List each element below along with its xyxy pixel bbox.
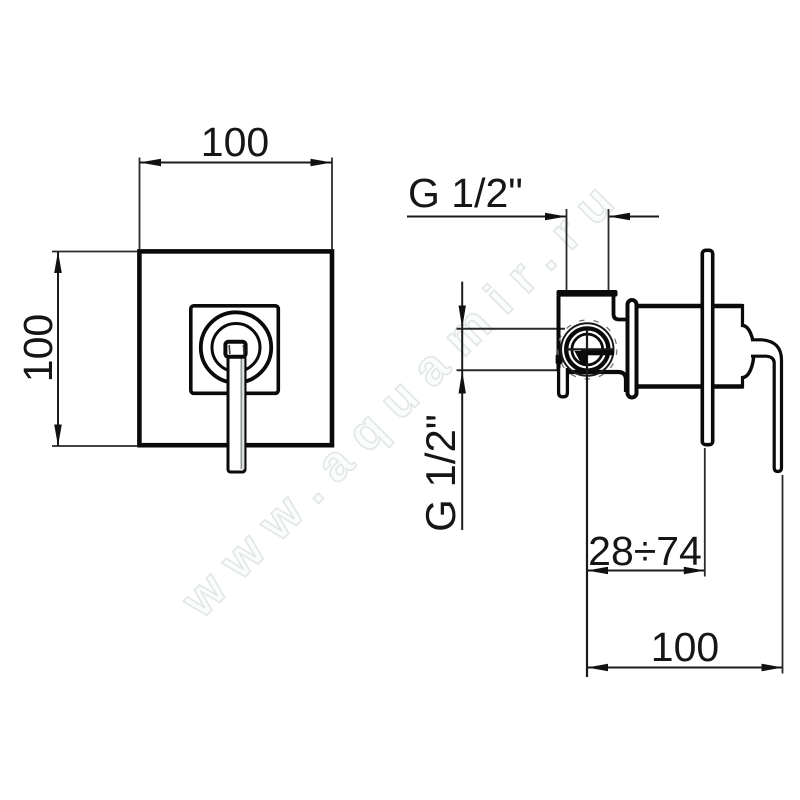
handle dome (742, 326, 754, 378)
trim ring outer (201, 312, 271, 382)
crosshair horizontal (566, 348, 614, 350)
hub tick right (242, 345, 245, 354)
extension line thread left (566, 209, 568, 290)
valve body left wall (557, 296, 561, 371)
extension line left-top (52, 251, 137, 253)
shaft shading stripe (242, 358, 245, 469)
hub face upper segment (741, 304, 744, 327)
svg-text:100: 100 (651, 624, 719, 670)
cartridge ring thin (561, 323, 613, 375)
dimension line 100 left (57, 252, 59, 447)
hub tick left (228, 345, 231, 354)
extension line top-right (331, 158, 333, 250)
arrowhead up (54, 252, 62, 274)
arrowhead left (587, 567, 608, 575)
svg-text:100: 100 (201, 119, 269, 165)
svg-text:100: 100 (15, 314, 61, 382)
extension line top-left (139, 158, 141, 250)
watermark www.aquamir.ru (169, 163, 635, 629)
arrowhead left (140, 159, 162, 167)
arrowhead right-pointing (545, 213, 567, 221)
valve body top cap (557, 290, 618, 297)
arrowhead up at lower port line (459, 371, 466, 394)
arrowhead right (311, 159, 333, 167)
wall plate side view (702, 250, 712, 444)
handle lever (751, 340, 782, 472)
cover sleeve top edge (639, 304, 743, 309)
extension line handle end (782, 475, 784, 674)
side dimension vertical line (461, 282, 463, 530)
valve body bottom (559, 372, 627, 392)
dimension line 100 top (140, 162, 333, 164)
dimension line 28÷74 (587, 570, 705, 572)
dimension line G1/2 right segment (609, 216, 660, 218)
dimension line G1/2 left segment (407, 216, 567, 218)
arrowhead left (587, 664, 608, 672)
extension line plate left face (704, 448, 706, 577)
handle hub front (225, 342, 245, 357)
arrowhead down at upper port line (459, 306, 466, 329)
cartridge ring inner (572, 334, 603, 365)
trim square (191, 306, 278, 394)
svg-text:G 1/2": G 1/2" (417, 414, 464, 532)
arrowhead left-pointing (609, 213, 631, 221)
side port stub on left wall (556, 354, 563, 364)
side port extension line lower (457, 369, 558, 371)
mounting flange capsule (628, 300, 637, 398)
shaft shading line (240, 358, 242, 469)
cartridge ring thick (566, 328, 608, 370)
wall plate front (square 100x100) (139, 251, 332, 445)
trim ring inner (212, 324, 260, 372)
cartridge dashed circle (558, 320, 617, 379)
arrowhead down (54, 425, 62, 447)
dimension line 100 bottom (587, 667, 783, 669)
extension line thread right (608, 209, 610, 290)
mounting tab lower-left (559, 368, 568, 397)
arrowhead right (762, 664, 783, 672)
crosshair vertical / centerline (586, 330, 588, 678)
svg-text:G 1/2": G 1/2" (408, 170, 523, 216)
lever section wedge (575, 351, 588, 364)
arrowhead right (684, 567, 705, 575)
lever section bar (581, 350, 614, 355)
cover sleeve bottom edge (639, 384, 743, 389)
extension line left-bottom (52, 445, 137, 447)
hub face lower segment (741, 376, 744, 389)
handle shaft front (228, 356, 245, 472)
valve body right wall with step (614, 296, 628, 320)
side port extension line upper (457, 328, 566, 330)
